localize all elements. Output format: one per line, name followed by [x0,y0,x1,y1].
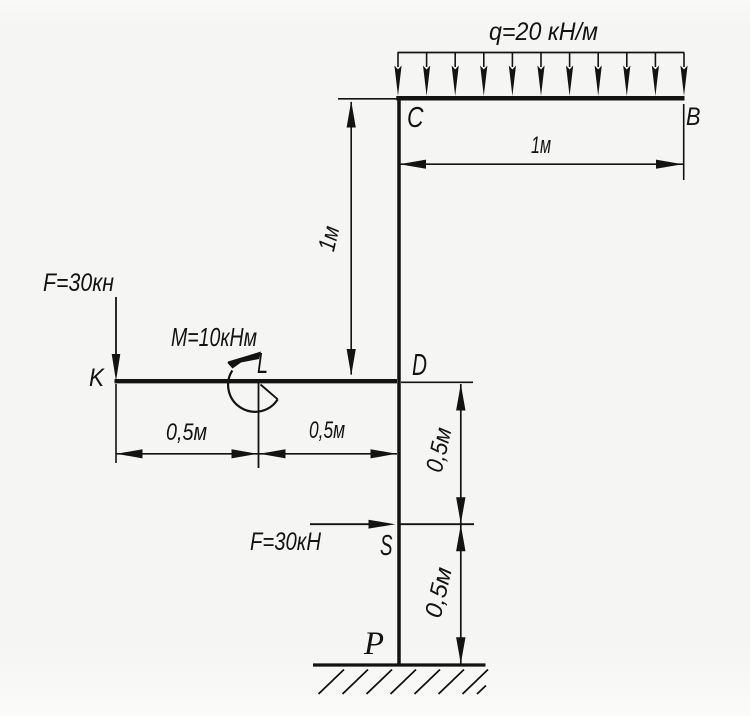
extension line right of S [399,523,474,525]
svg-text:D: D [412,347,427,382]
extension line below K [115,384,117,463]
hatch stroke 8 (short) [477,686,486,695]
svg-text:K: K [89,364,105,392]
vertical dimension D-S 0,5m [456,384,465,524]
dimension line CB 1m [399,160,683,169]
beam KD [115,379,398,383]
dimension line K-L-D [116,449,397,458]
beam CB [396,96,684,101]
vertical dimension S-P 0,5m [456,525,465,664]
load arrow 3 [452,53,459,97]
load arrow 7 [566,53,573,97]
ground line [313,663,486,666]
svg-text:F=30кн: F=30кн [43,269,114,297]
svg-text:L: L [257,348,268,380]
load arrow 5 [509,53,516,97]
moment arc at L [228,371,278,412]
extension line below B [683,104,685,180]
svg-text:B: B [686,103,701,131]
column DP [397,96,401,665]
hatch stroke 4 [391,670,417,695]
svg-text:M=10кНм: M=10кНм [171,322,257,352]
load arrow 9 [623,53,630,97]
load arrow 1 [394,53,401,97]
svg-text:1м: 1м [531,132,551,159]
hatch stroke 2 [343,670,369,695]
load arrow 6 [537,53,544,97]
svg-text:0,5м: 0,5м [166,419,207,446]
hatch stroke 1 [319,670,345,695]
load arrow 4 [480,53,487,97]
moment arrowhead [228,352,262,369]
force F at K (down arrow) [112,297,121,381]
force F=30kN at S (right arrow) [310,520,396,529]
load arrow 2 [423,53,430,97]
load arrow 10 [652,53,659,97]
svg-text:q=20 кН/м: q=20 кН/м [489,18,598,46]
distributed load top line [398,52,685,54]
extension line right of D [401,381,473,383]
svg-text:C: C [407,102,424,134]
svg-text:0,5м: 0,5м [309,417,345,444]
hatch stroke 3 [367,670,393,695]
load arrow 8 [595,53,602,97]
hatch stroke 6 [439,670,465,695]
moment chord [261,385,278,400]
hatch stroke 5 [415,670,441,695]
extension tick line at L [258,383,260,468]
svg-text:P: P [363,626,384,662]
load arrow 11 [680,53,687,97]
beam extension line toward 1m dim [338,98,397,100]
hatch stroke 7 [463,670,489,695]
svg-text:F=30кН: F=30кН [250,528,322,556]
vertical dimension line 1m (C to D level) [347,101,356,376]
svg-text:S: S [380,530,393,562]
